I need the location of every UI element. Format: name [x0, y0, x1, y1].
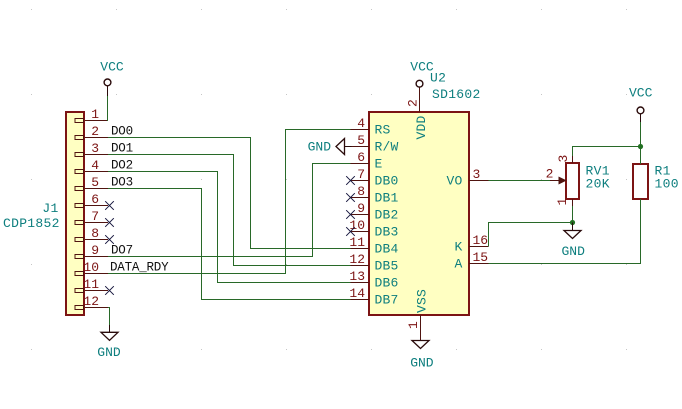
wire VO (U2.3) to RV1 wiper	[489, 180, 551, 182]
U2 pin 7 DB0	[351, 167, 399, 189]
svg-text:2: 2	[91, 124, 99, 139]
svg-text:VCC: VCC	[100, 60, 124, 75]
J1 pin 4	[75, 158, 108, 174]
svg-text:7: 7	[91, 209, 99, 224]
U2 pin 9 DB2	[351, 201, 399, 223]
U2 pin 6 E	[351, 150, 383, 172]
svg-text:CDP1852: CDP1852	[3, 216, 60, 231]
svg-text:5: 5	[91, 175, 99, 190]
no-connect J1 pin 7	[105, 218, 114, 227]
svg-text:3: 3	[91, 141, 99, 156]
svg-text:7: 7	[357, 167, 365, 182]
svg-text:8: 8	[357, 184, 365, 199]
label DO0	[111, 125, 133, 139]
U2 reference U2	[430, 70, 446, 85]
svg-text:10: 10	[83, 260, 99, 275]
svg-text:DB2: DB2	[375, 208, 399, 223]
wire net DO2 (J1.4 to U2 DB6)	[108, 172, 351, 283]
J1 pin 8	[75, 226, 108, 242]
J1 pin 3	[75, 141, 108, 157]
svg-text:11: 11	[83, 277, 99, 292]
power VCC (J1 pin1)	[100, 60, 124, 97]
svg-text:R/W: R/W	[375, 140, 399, 155]
wire K (U2.16) to GND junction	[489, 223, 573, 247]
svg-text:SD1602: SD1602	[432, 87, 481, 102]
svg-text:13: 13	[349, 269, 365, 284]
svg-text:1: 1	[91, 107, 99, 122]
svg-text:9: 9	[91, 243, 99, 258]
svg-text:DB7: DB7	[375, 293, 399, 308]
ground (U2 VSS)	[410, 341, 434, 371]
svg-text:GND: GND	[97, 345, 121, 360]
no-connect J1 pin 8	[105, 235, 114, 244]
svg-text:VCC: VCC	[629, 86, 653, 101]
wire RV1 bottom to GND junction	[572, 206, 574, 223]
J1 pin 2	[75, 124, 108, 140]
label DO7	[111, 244, 133, 258]
svg-text:DO0: DO0	[111, 125, 133, 139]
J1 pin 1	[75, 107, 108, 123]
svg-text:12: 12	[349, 252, 365, 267]
LCD module U2 body	[369, 112, 469, 315]
no-connect U2 pin 8	[346, 193, 355, 202]
svg-text:DB4: DB4	[375, 242, 399, 257]
connector J1 body	[66, 112, 84, 315]
svg-text:E: E	[375, 157, 383, 172]
RV1 pin 3 (top)	[556, 155, 573, 163]
wire net DO3 (J1.5 to U2 DB7)	[108, 189, 351, 300]
no-connect J1 pin 6	[105, 201, 114, 210]
svg-text:4: 4	[91, 158, 99, 173]
wire junction to RV1 top	[573, 147, 641, 157]
svg-text:DATA_RDY: DATA_RDY	[110, 261, 169, 275]
J1 value CDP1852	[3, 216, 60, 231]
svg-text:20K: 20K	[586, 177, 610, 192]
svg-text:DO3: DO3	[111, 176, 133, 190]
svg-text:16: 16	[473, 233, 489, 248]
svg-text:15: 15	[473, 250, 489, 265]
power VCC (right)	[629, 86, 653, 123]
svg-text:RS: RS	[375, 123, 391, 138]
no-connect J1 pin 11	[105, 286, 114, 295]
svg-text:2: 2	[546, 167, 554, 182]
svg-text:DB0: DB0	[375, 174, 399, 189]
U2 pin 5 R/W	[351, 133, 399, 155]
wire J1 pin12 to GND	[108, 308, 110, 326]
no-connect U2 pin 9	[346, 210, 355, 219]
no-connect U2 pin 7	[346, 176, 355, 185]
U2 pin 2 VDD	[405, 87, 429, 139]
grid dots	[31, 9, 627, 350]
RV1 value 20K	[586, 177, 610, 192]
J1 pin 6	[75, 192, 108, 208]
svg-text:1: 1	[406, 321, 421, 329]
wire net DO1 (J1.3 to U2 DB5)	[108, 155, 351, 266]
svg-text:11: 11	[349, 235, 365, 250]
ground (J1 pin12)	[97, 325, 121, 360]
svg-text:6: 6	[357, 150, 365, 165]
J1 pin 11	[75, 277, 108, 293]
svg-text:J1: J1	[42, 201, 58, 216]
svg-text:DO7: DO7	[111, 244, 133, 258]
wire A (U2.15) to R1 bottom	[489, 199, 641, 264]
J1 reference J1	[42, 201, 58, 216]
RV1 pin 1 (bottom)	[555, 198, 573, 207]
U2 pin 11 DB4	[349, 235, 398, 257]
wire net DO7 (J1.9 to U2 E)	[108, 164, 351, 257]
svg-text:3: 3	[473, 167, 481, 182]
svg-text:VO: VO	[446, 174, 462, 189]
svg-text:5: 5	[357, 133, 365, 148]
J1 pin 9	[75, 243, 108, 259]
wire net DO0 (J1.2 to U2 DB4)	[108, 138, 351, 249]
J1 pin 5	[75, 175, 108, 191]
RV1 wiper arrow pin 2	[546, 167, 566, 184]
svg-text:100: 100	[655, 177, 679, 192]
svg-text:A: A	[454, 257, 462, 272]
junction node at VCC/R1/RV1	[638, 144, 643, 149]
svg-text:GND: GND	[308, 140, 332, 155]
resistor R1 body	[633, 164, 648, 199]
svg-text:VDD: VDD	[414, 115, 429, 139]
ground (U2 R/W)	[308, 139, 352, 155]
U2 pin 12 DB5	[349, 252, 398, 274]
svg-text:12: 12	[83, 294, 99, 309]
R1 reference R1	[655, 164, 671, 179]
svg-text:6: 6	[91, 192, 99, 207]
wire VCC to J1 pin1	[107, 96, 109, 121]
label DO2	[111, 159, 133, 173]
J1 pin 7	[75, 209, 108, 225]
U2 pin 15 A	[454, 250, 488, 272]
U2 pin 1 VSS	[406, 289, 429, 341]
svg-text:3: 3	[556, 155, 571, 163]
U2 value SD1602	[432, 87, 481, 102]
power VCC (U2 VDD)	[410, 60, 434, 88]
wire net DATA_RDY (J1.10 to U2 RS)	[108, 130, 351, 274]
wire VCC to R1 top	[640, 122, 642, 164]
U2 pin 10 DB3	[349, 218, 398, 240]
svg-text:DO2: DO2	[111, 159, 133, 173]
U2 pin 14 DB7	[349, 286, 398, 308]
svg-text:4: 4	[357, 116, 365, 131]
svg-text:8: 8	[91, 226, 99, 241]
U2 pin 4 RS	[351, 116, 391, 138]
U2 pin 8 DB1	[351, 184, 399, 206]
svg-text:DB6: DB6	[375, 276, 399, 291]
svg-text:DB1: DB1	[375, 191, 399, 206]
no-connect U2 pin 10	[346, 227, 355, 236]
label DATA_RDY	[110, 261, 169, 275]
potentiometer RV1 body	[566, 163, 579, 199]
svg-text:DO1: DO1	[111, 142, 133, 156]
junction node at RV1/K/GND	[570, 220, 575, 225]
svg-text:GND: GND	[410, 356, 434, 371]
RV1 reference RV1	[586, 164, 610, 179]
R1 value 100	[655, 177, 679, 192]
label DO3	[111, 176, 133, 190]
label DO1	[111, 142, 133, 156]
svg-text:1: 1	[555, 198, 570, 206]
svg-text:K: K	[454, 240, 462, 255]
U2 pin 16 K	[454, 233, 488, 255]
svg-text:9: 9	[357, 201, 365, 216]
U2 pin 13 DB6	[349, 269, 398, 291]
U2 pin 3 VO	[446, 167, 488, 189]
ground (RV1 bottom)	[561, 223, 585, 260]
svg-text:GND: GND	[561, 244, 585, 259]
J1 pin 10	[75, 260, 108, 276]
svg-text:VSS: VSS	[414, 289, 429, 313]
J1 pin 12	[75, 294, 108, 310]
svg-text:2: 2	[405, 99, 420, 107]
svg-text:14: 14	[349, 286, 365, 301]
svg-text:DB5: DB5	[375, 259, 399, 274]
svg-text:VCC: VCC	[410, 60, 434, 75]
svg-text:DB3: DB3	[375, 225, 399, 240]
